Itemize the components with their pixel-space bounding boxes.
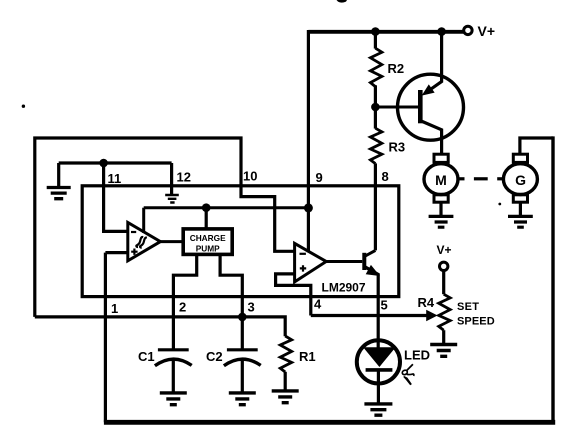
- wire: R1 to ground: [284, 372, 287, 390]
- wire: R2 top lead: [374, 32, 377, 49]
- wire: pin 10 net, top-left loop from x=35: [35, 138, 295, 317]
- transistor Q2 emitter arrow (NPN): [367, 266, 379, 276]
- wire: feedback drop onto U1A: [142, 208, 145, 233]
- wire: charge pump to pin 2: [173, 254, 196, 349]
- ground below C1: [160, 393, 187, 405]
- capacitor C2: [227, 348, 258, 351]
- arrow: R4 wiper arrowhead: [427, 311, 437, 321]
- U1B plus sign: [300, 265, 306, 271]
- resistor R4: [439, 294, 451, 330]
- wire: bottom rail: [104, 420, 555, 425]
- wire: pin 12 ground drop: [170, 163, 173, 196]
- capacitor C1: [158, 348, 189, 351]
- node: junction R2/R3/Q1 base: [371, 103, 380, 112]
- wire: U1B plus input jog to pin 4: [276, 274, 311, 316]
- wire: R4 to ground: [442, 330, 445, 343]
- svg-text:LM2907: LM2907: [322, 281, 366, 295]
- resistor R3: [370, 128, 382, 163]
- wire: Q1 emitter lead from top rail: [428, 32, 442, 92]
- svg-text:R1: R1: [299, 349, 316, 364]
- resistor R2: [370, 48, 382, 86]
- op-amp U1A (input comparator with hysteresis): [128, 223, 161, 261]
- LED triangle: [364, 348, 394, 367]
- wire: internal rail y208: [144, 206, 309, 209]
- dust speck: [22, 105, 25, 108]
- svg-text:SET: SET: [457, 301, 479, 313]
- svg-text:C2: C2: [206, 349, 223, 364]
- svg-text:C1: C1: [138, 349, 155, 364]
- svg-text:SPEED: SPEED: [457, 316, 495, 328]
- svg-text:1: 1: [111, 301, 118, 316]
- wire: R2 bottom lead: [374, 85, 377, 107]
- svg-text:CHARGE: CHARGE: [190, 233, 226, 243]
- svg-text:LED: LED: [404, 348, 430, 363]
- wire: G top to right-side rail: [520, 138, 553, 154]
- ground below C2: [229, 393, 256, 405]
- wire: M ground stem: [439, 202, 442, 215]
- dust speck 2: [498, 203, 501, 206]
- node: junction pin 11 / ground line: [99, 159, 108, 168]
- transistor Q1 base bar: [418, 90, 423, 123]
- svg-text:R3: R3: [389, 139, 406, 154]
- transistor Q2 base bar: [362, 253, 366, 270]
- ground below R4: [430, 345, 457, 357]
- generator G circle: [503, 164, 537, 195]
- wire: R3 top lead: [374, 107, 377, 129]
- U1A plus sign: [131, 249, 137, 255]
- node: junction top rail / R2: [371, 27, 380, 36]
- svg-text:5: 5: [381, 298, 388, 313]
- svg-text:3: 3: [248, 300, 255, 315]
- svg-text:PUMP: PUMP: [196, 244, 220, 254]
- motor M bottom terminal rect: [434, 195, 448, 202]
- wire: U1A plus input from pin 1: [105, 251, 127, 254]
- wire: pin 11 to U1A inverting input: [104, 163, 128, 231]
- wire: V+ to R4: [442, 271, 445, 295]
- wire: M right stub: [458, 177, 465, 180]
- wire: ground net pins 11-12: [59, 161, 172, 164]
- wire: left ground stem: [57, 163, 60, 186]
- svg-text:M: M: [435, 172, 447, 188]
- svg-text:8: 8: [382, 169, 389, 184]
- node: junction rail / charge pump top: [202, 203, 211, 212]
- wire: charge pump top stub: [205, 208, 208, 229]
- svg-text:12: 12: [177, 170, 191, 185]
- generator G top terminal rect: [513, 154, 527, 162]
- U1A hysteresis symbol: [136, 237, 143, 247]
- wire: pin 3 net to R1: [35, 317, 285, 336]
- svg-text:V+: V+: [478, 23, 496, 39]
- wire: U1B output to Q2 base: [326, 260, 362, 263]
- wire: dashed coupling M to G: [474, 177, 488, 180]
- transistor Q2 collector: [365, 250, 376, 256]
- svg-text:R4: R4: [418, 295, 435, 310]
- partial caption glyph at top edge: [337, 0, 348, 3]
- wire: C2 to ground: [241, 358, 244, 392]
- wire: pin 9 vertical from top rail down to op-amp U1B: [307, 30, 310, 252]
- svg-text:G: G: [515, 172, 526, 188]
- LED light squiggle: [407, 364, 413, 370]
- wire: V+ top rail: [308, 30, 463, 34]
- wire: U1A output to charge pump: [160, 240, 183, 243]
- IC LM2907 boundary box: [82, 186, 399, 297]
- ground below M: [429, 216, 454, 227]
- charge pump block: [183, 229, 232, 255]
- svg-text:V+: V+: [437, 243, 452, 257]
- LED circle: [357, 340, 400, 383]
- terminal V+ R4: [440, 262, 448, 270]
- U1A minus sign: [131, 231, 136, 233]
- wire: LED to ground: [377, 370, 380, 403]
- wire: Q1 base: [375, 106, 418, 109]
- wire: G left stub: [497, 177, 504, 180]
- resistor R1: [280, 336, 292, 372]
- ground at pin 12: [165, 195, 179, 203]
- wire: G ground stem: [519, 202, 522, 215]
- svg-text:9: 9: [316, 170, 323, 185]
- svg-text:11: 11: [108, 171, 122, 186]
- motor M top terminal rect: [434, 154, 448, 162]
- wire: pin 4 to R4 wiper: [311, 314, 428, 317]
- ground below G: [508, 216, 533, 227]
- op-amp U1B: [295, 243, 327, 282]
- transistor Q2 emitter wire: [365, 267, 378, 348]
- wire: right edge vertical down to bottom rail: [551, 136, 554, 422]
- U1B minus sign: [300, 253, 306, 255]
- ground left (pin 11 net): [47, 188, 71, 199]
- transistor Q1 circle: [398, 74, 464, 140]
- node: junction pin 3 / R1 net: [238, 313, 247, 322]
- node: junction rail / pin 9 line: [304, 203, 313, 212]
- node: junction top rail / Q1 emitter: [437, 27, 446, 36]
- motor M circle: [424, 164, 458, 195]
- wire: pin 8 lead from R3 down to Q2 collector: [374, 163, 377, 250]
- svg-text:4: 4: [314, 297, 322, 312]
- svg-text:10: 10: [243, 169, 257, 184]
- terminal V+ top: [464, 26, 472, 34]
- transistor Q1 emitter arrow (PNP): [423, 85, 434, 95]
- svg-text:2: 2: [179, 300, 186, 315]
- wire: charge pump to pin 3: [220, 254, 242, 349]
- wire: Q1 collector: [420, 121, 441, 155]
- wire: C1 to ground: [172, 358, 175, 392]
- ground below LED: [364, 404, 392, 415]
- LED cathode bar: [366, 368, 393, 372]
- generator G bottom terminal rect: [513, 195, 527, 202]
- ground below R1: [272, 391, 299, 403]
- wire: pin 1 vertical down to bottom rail: [104, 253, 107, 423]
- svg-text:R2: R2: [388, 61, 405, 76]
